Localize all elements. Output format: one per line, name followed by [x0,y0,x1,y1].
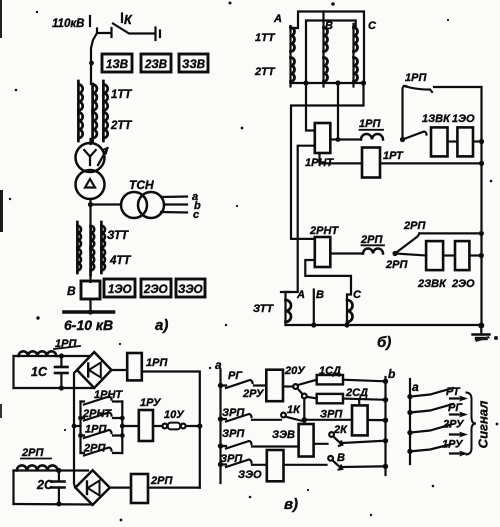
node dot bus 233 [479,231,484,236]
svg-text:1ЭО: 1ЭО [108,284,132,296]
node dot RT [407,394,412,399]
blade 20U [297,388,302,394]
node dot b4 [383,438,388,443]
capacitor 2C [58,471,60,482]
blade 1K [285,417,303,421]
box 1SD [317,375,343,384]
svg-text:Сигнал: Сигнал [476,401,491,449]
svg-text:а): а) [155,317,168,334]
diode symbol 1V [87,364,89,377]
contact 1RP [81,430,123,438]
wire pivot2 down [303,398,305,419]
svg-text:В: В [316,289,324,301]
wire to TSN [91,203,122,205]
transformer T1 delta circle [76,170,105,199]
inductor 1RP [361,134,383,139]
relay 3RP box [352,405,368,435]
svg-text:в): в) [284,496,298,513]
CT 4TT coils [77,247,105,275]
svg-text:1К: 1К [287,404,301,416]
wire 3EO right to V contact [284,464,327,466]
rectifier 1V diamond [77,352,111,388]
node dot row 3RP3 [218,462,223,467]
node dot row 3RP2 [218,443,223,448]
CT 3TT coils [77,222,105,250]
svg-text:2РП: 2РП [385,259,408,271]
box 1EO [457,127,473,156]
node dot right rail [197,423,202,428]
node dot b2 [383,397,388,402]
svg-text:2ТТ: 2ТТ [254,66,276,78]
wire 3TT phase B stub [313,290,315,326]
relay 3EV box [299,424,314,457]
wire V to bus b [343,465,386,468]
svg-text:b: b [388,367,395,381]
svg-text:1РП: 1РП [359,118,381,130]
node bus dot [88,309,93,314]
wire pivot2 to 2SD [307,397,317,399]
contact 20U pivot 1 [293,384,298,389]
contact blade 2RP row [395,233,420,253]
wire pivot1 to 1SD [298,380,317,385]
bus a2 vertical [409,379,411,464]
wire 1C bottom [14,387,95,389]
underline 1RP [54,346,80,349]
svg-text:2РП: 2РП [21,447,44,459]
contact 2K pivot [329,432,334,437]
svg-text:б): б) [377,334,391,351]
wire outer top bus [291,12,365,84]
wire to breaker box [89,273,91,282]
wire 2RU out [283,385,293,387]
underline 2RP [362,244,385,246]
wire 1C top [14,355,62,357]
wire 2RP box to right rail [148,487,200,489]
wire between 1ZVK 1EO [448,140,458,142]
line end symbol [154,28,156,41]
node dot row 3RP1 [218,416,223,421]
node dot b [335,80,340,85]
inductor 1RP [19,351,57,356]
wire 3RP to bus b [368,419,386,421]
svg-text:2ЗВ: 2ЗВ [144,59,167,71]
node dot bus 255 [479,253,484,258]
svg-text:ЗЭО: ЗЭО [238,469,262,481]
inductor 2RP [363,249,383,254]
wire junction to 3EV box [303,420,305,424]
wire switch to right bus [434,87,482,326]
wire phase A line [289,26,291,87]
node dot C bottom [344,322,349,327]
wire 1C left side [12,356,14,388]
CT 1TT coils [78,81,107,114]
contact 1RU2 [410,445,450,452]
node dot junction [302,417,307,422]
tick 3TT A [281,291,290,293]
contact RG [221,380,267,388]
switch K blade [113,24,154,34]
svg-text:ЗЗВ: ЗЗВ [182,59,205,71]
wire cap2 to rectifier [59,469,88,471]
node dot 2RU [407,430,412,435]
svg-text:2С: 2С [36,478,54,492]
node dot 2RP [392,251,397,256]
CT 2TT coils [78,110,107,143]
wire left rail to bracket [74,425,81,427]
breaker box V [81,281,100,299]
svg-text:РГ: РГ [228,370,243,382]
110kV bus tick [89,16,91,26]
wire rectifier to 1RP box [111,369,127,371]
node dot b1 [383,379,388,384]
svg-text:20У: 20У [284,365,306,377]
wire 1RNT out W2 [330,138,361,140]
wire star to W1 [291,83,364,239]
node dot bus 163 [479,161,484,166]
transformer T1 wye circle [76,143,105,172]
node dot B bottom [311,322,316,327]
node dot 1RP [400,137,405,142]
contact 3RP row4 [221,460,267,468]
svg-text:2ЭО: 2ЭО [451,278,475,290]
wire feeder vertical [91,33,97,84]
tap arrow [98,148,108,165]
svg-text:6-10 кВ: 6-10 кВ [64,317,113,333]
svg-text:А: А [273,13,282,25]
wire bottom bus to ground [286,324,482,326]
contact 1K pivot [281,413,286,418]
relay 2RU box [266,370,283,402]
bus b vertical [384,377,386,475]
svg-text:1РП: 1РП [146,357,168,369]
wire 2RNT lower left to 3TT C [305,260,351,295]
disconnector fixed contact tick [110,28,112,37]
rectifier 2V diamond [75,470,109,505]
wire 1RNT bottom stub [320,153,363,163]
svg-text:С: С [353,289,362,301]
svg-text:ЗЭО: ЗЭО [178,284,203,296]
wire 2C top [14,469,59,471]
node dot c [361,80,366,85]
wire CT bottom bus [291,82,364,84]
wire 1EO to bus [473,140,482,142]
node dot ground [478,323,484,329]
CT 2TT coils phases [291,58,358,82]
node dots 2C [56,468,61,473]
wire 3EV right to 2K [314,443,328,445]
arrow RT [450,397,464,399]
svg-text:2РНТ: 2РНТ [309,225,339,237]
box 2ZV [141,54,171,72]
wire 2K to bus b [343,441,386,443]
blade 2K [333,436,342,446]
element 10U [162,424,167,429]
wire mid down [337,83,339,140]
wire rectifier2 to 2RP box [110,487,131,489]
node tap dot [89,61,94,66]
wire feeder top corner [97,29,111,34]
CT 1TT coils phases [291,28,358,52]
wire 2C left side [12,471,14,505]
contact V pivot [328,456,333,461]
svg-text:1С: 1С [31,365,48,379]
svg-text:2РУ: 2РУ [242,388,265,400]
wire down to 1RNT [306,83,315,131]
node dot bus 141 [479,139,484,144]
wire phase C line [352,24,354,87]
svg-text:2ТТ: 2ТТ [110,120,132,132]
inductor 2RP [17,465,58,470]
box 2ZVK [426,241,443,270]
contact RG2 [410,404,453,413]
svg-text:ЗРП: ЗРП [320,409,343,421]
svg-text:1РТ: 1РТ [383,150,404,162]
contact 2RP [81,448,123,456]
svg-text:ТСН: ТСН [129,178,154,192]
wire 10U to right rail [186,425,200,427]
svg-text:1ТТ: 1ТТ [111,89,132,101]
svg-text:1ЗВК: 1ЗВК [422,113,451,125]
svg-text:1ЗВ: 1ЗВ [106,59,128,71]
box 2SD [317,394,343,403]
contact 1RNT [81,397,123,405]
wire blade to bus [419,232,481,234]
wire box to bus [89,299,91,313]
box 2EO [455,241,469,270]
svg-text:а: а [412,380,419,394]
delta symbol [85,179,95,188]
svg-text:2СД: 2СД [345,387,368,399]
bus 6-10kV [64,310,114,314]
contact 20U pivot 2 [302,394,307,399]
relay 1RNT box [315,123,331,153]
svg-text:1ЭО: 1ЭО [452,113,475,125]
contact 3RP row3 [221,441,299,449]
wire left rail to rectifier2 [74,370,77,488]
ground [480,326,482,335]
svg-text:c: c [193,209,199,221]
svg-text:А: А [296,289,305,301]
svg-text:2РП: 2РП [403,220,426,232]
wire to transformer [89,139,91,144]
contact RT [410,388,453,397]
svg-text:ЗТТ: ЗТТ [253,303,274,315]
svg-text:2РУ: 2РУ [442,419,465,431]
switch K tick [121,14,123,23]
box 3ZV [179,54,208,72]
svg-text:2РП: 2РП [150,475,173,487]
contact 2RNT [81,413,123,421]
contact blade 1RP row [403,132,427,140]
wire below transformer [89,199,91,227]
node dot RG [407,410,412,415]
transformer TSN circles [121,192,147,218]
svg-text:2ЗВК: 2ЗВК [417,278,447,290]
contact 3RP row2 [221,414,282,422]
svg-text:В: В [337,452,345,464]
svg-text:1РУ: 1РУ [140,397,162,409]
wire bracket output [120,424,125,429]
wire 1SD to bus b [343,380,386,382]
contact blade 1RP switch [404,86,432,92]
svg-text:ЗТТ: ЗТТ [107,230,129,242]
svg-text:С: С [368,20,377,32]
node dot b5 [383,464,388,469]
wire 2SD to bus b [343,399,386,400]
contact 2RU2 [410,425,451,433]
svg-text:1ТТ: 1ТТ [255,32,276,44]
svg-text:4ТТ: 4ТТ [109,255,131,267]
wire 1RT to bus [380,162,482,164]
contact bracket left [79,402,81,454]
box 1ZVK [431,127,448,156]
brace [467,393,477,455]
svg-text:2РП: 2РП [360,234,383,246]
CT 3TT coil phase C [346,295,348,326]
relay 1RU box [139,410,153,441]
CT 3TT coil phase A [284,292,286,325]
box 2EO [141,279,171,297]
arrow 1RU2 [450,452,464,454]
node dot 1RU [407,449,412,454]
contact bracket right [121,402,123,454]
wire inner top bus [306,21,356,84]
svg-text:В: В [67,284,76,298]
wire phase B line [322,12,324,87]
wire 2EO to bus [469,254,481,256]
wire cap to rectifier [61,355,89,357]
svg-text:К: К [124,13,133,27]
relay 3EO box [267,450,284,481]
relay 1RP box [127,353,142,380]
arrow 2RU2 [450,433,464,435]
svg-text:ЗРП: ЗРП [222,428,245,440]
wire 2SD to 3RP coil top [358,399,360,405]
svg-text:ЗЭВ: ЗЭВ [272,429,295,441]
diode symbol 2V [86,482,88,495]
svg-text:10У: 10У [164,409,185,421]
capacitor 1C [60,356,62,367]
wire node to 2ZVK [395,254,426,256]
wire to 10U [153,425,163,427]
svg-text:2ЭО: 2ЭО [143,284,168,296]
svg-text:2К: 2К [333,424,348,436]
relay 2RP box [131,474,148,503]
box 3EO [176,279,205,297]
wire between 2ZVK 2EO [443,254,455,256]
node dot b3 [383,418,388,423]
arrow RG2 [450,413,464,415]
node dot W2 [336,137,341,142]
node dots 1C [59,353,64,358]
bus a vertical [219,370,221,483]
node dot row RG [218,383,223,388]
wye symbol [84,150,96,165]
svg-text:1РП: 1РП [405,72,427,84]
blade V [332,460,342,470]
wire 1RP box to right rail [142,372,200,488]
wire junction to 3RP coil [304,419,352,421]
node TSN tap [88,202,93,207]
svg-text:110кВ: 110кВ [52,18,84,30]
svg-text:1РУ: 1РУ [442,439,464,451]
underline 2RP [21,458,51,460]
box 1EO [104,279,135,297]
wire 2C bottom [14,503,93,506]
relay 2RNT box [315,237,331,267]
underline 1RP [360,129,384,131]
wire 1RP switch vertical [403,86,407,140]
box 1ZV [102,54,132,72]
relay 1RT box [362,148,380,178]
node dot a [303,80,308,85]
wire 1RNT lower left to 3TT A [286,146,315,292]
wire 2RNT out [330,252,363,254]
node dot left rail [72,424,77,429]
TSN output wires a b c [161,195,187,198]
